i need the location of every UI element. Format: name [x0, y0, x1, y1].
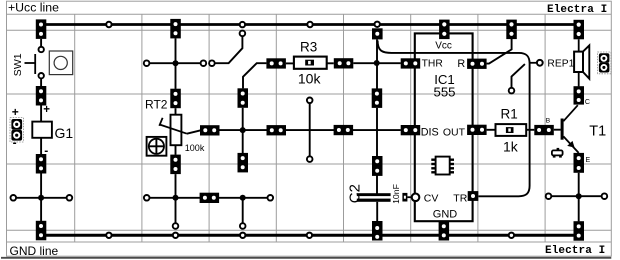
- svg-text:Vcc: Vcc: [435, 40, 452, 51]
- wire col377 to C2: [376, 108, 378, 195]
- battery clip pads (left, + -): [10, 118, 23, 142]
- pad block col242 upper: [238, 88, 249, 108]
- wire G1 top: [40, 106, 42, 122]
- svg-text:+: +: [43, 104, 50, 116]
- pad block R3 left: [266, 58, 286, 68]
- junction col242 row198: [240, 195, 246, 201]
- svg-text:C2: C2: [347, 184, 364, 203]
- svg-text:R3: R3: [300, 39, 317, 54]
- terminal circle row196 right: [602, 193, 608, 199]
- terminal circle col310 link top: [307, 98, 313, 104]
- terminal circle col511 mid: [509, 88, 515, 94]
- wire R3 right lead: [327, 62, 334, 64]
- pad block col175 on +Ucc rail: [170, 19, 181, 39]
- wire SW1 top: [40, 39, 42, 47]
- svg-text:Electra I: Electra I: [545, 245, 605, 257]
- terminal circle col310 link bottom: [307, 156, 313, 162]
- svg-text:THR: THR: [422, 59, 443, 70]
- terminal circle CV: [412, 194, 420, 202]
- svg-text:DIS: DIS: [421, 127, 439, 139]
- terminal circle row198 mid-left: [144, 195, 150, 201]
- pad block col41 on +Ucc rail: [36, 19, 47, 39]
- pad block OUT: [467, 125, 487, 135]
- pad col377 below rail: [372, 28, 383, 39]
- svg-text:R: R: [457, 58, 465, 70]
- junction col175 row198: [173, 195, 179, 201]
- wire R3 left pad to col242 block: [243, 63, 266, 88]
- wire GND rail: [36, 234, 584, 237]
- svg-text:+Ucc line: +Ucc line: [8, 0, 59, 14]
- thermistor RT2 body: [171, 115, 182, 146]
- wire twin circles to rail col242: [215, 37, 242, 64]
- junction col578 row196: [576, 193, 582, 199]
- wire speaker to C pad: [578, 72, 580, 86]
- terminal col310 on +Ucc rail: [307, 22, 312, 27]
- wire col41 to GND: [40, 174, 42, 222]
- svg-text:RT2: RT2: [145, 98, 168, 112]
- pad block DIS row 3: [334, 125, 354, 135]
- buzzer icon: [552, 148, 563, 158]
- pushbutton icon: [49, 51, 72, 75]
- svg-text:100k: 100k: [185, 143, 205, 153]
- resistor R1: [496, 124, 527, 136]
- pad block C (collector): [574, 86, 585, 104]
- pad block col377 on GND rail: [372, 221, 383, 241]
- pad block col41 above G1: [36, 86, 47, 106]
- pad block E (emitter): [574, 153, 585, 173]
- pad block col242 lower: [238, 153, 249, 173]
- battery G1: [32, 122, 52, 138]
- pad block RT2 bottom: [170, 155, 181, 175]
- svg-text:Electra I: Electra I: [547, 4, 607, 16]
- terminal col511 on GND rail: [509, 233, 514, 238]
- terminal circle REP1: [537, 60, 543, 66]
- pad block DIS row 2: [267, 125, 287, 135]
- svg-text:E: E: [586, 157, 591, 164]
- svg-text:SW1: SW1: [12, 53, 24, 76]
- pad 10nF tiny: [402, 193, 407, 202]
- terminal col108 on +Ucc rail: [106, 22, 111, 27]
- pad block R3 right: [334, 58, 354, 68]
- pad block col511 on rail: [506, 20, 517, 39]
- wire R3 left lead: [286, 62, 294, 64]
- wire +Ucc rail: [36, 23, 584, 26]
- wire col377 vertical (THR net): [376, 39, 378, 88]
- wire RT2 top lead: [175, 108, 177, 115]
- terminal circle row198 mid-right: [268, 195, 274, 201]
- wire col175 rail to RT2: [175, 38, 177, 89]
- capacitor C2: [357, 193, 391, 202]
- wire THR row: [353, 62, 401, 64]
- pad block Vcc on rail: [439, 20, 450, 39]
- speaker clip pads (right): [598, 52, 611, 74]
- speaker REP1 symbol: [574, 45, 589, 78]
- wire spring terminal to arc: [512, 64, 525, 87]
- wire col242 row198 to GND rail: [242, 198, 244, 223]
- wire RT2 bottom lead: [175, 145, 177, 155]
- trimmer screw symbol: [147, 137, 167, 156]
- wire OUT to R1: [487, 129, 496, 131]
- pad block THR: [401, 58, 421, 68]
- wire row63 left: [147, 62, 200, 64]
- terminal circle col242 on rail: [240, 22, 245, 27]
- terminal circle row63 left: [144, 60, 150, 66]
- pad TR: [468, 191, 479, 201]
- IC1 555 box: [415, 33, 473, 221]
- terminal col108 on GND rail: [106, 233, 111, 238]
- wire Ucc-pad arc to REP1/TR: [378, 41, 530, 197]
- wire DIS row: [200, 129, 401, 131]
- svg-text:OUT: OUT: [443, 127, 466, 139]
- pad block col578 on GND rail: [574, 221, 585, 241]
- pad block RT2 top: [170, 89, 181, 109]
- terminal circle row198 right of col41: [67, 195, 73, 201]
- RT2 wiper tick: [159, 118, 162, 126]
- svg-text:B: B: [546, 118, 551, 125]
- svg-text:T1: T1: [589, 124, 606, 140]
- wire RT2 wiper to DIS row: [187, 130, 200, 133]
- wire col175 row198 to GND rail: [175, 198, 177, 223]
- terminal circle col242 above GND rail: [240, 223, 246, 229]
- terminal circle row63 twin A: [201, 60, 207, 66]
- terminal circle col175 on GND rail: [173, 233, 178, 238]
- svg-text:TR: TR: [453, 193, 467, 205]
- wire C2 to GND rail: [376, 202, 378, 221]
- junction col242 DIS row: [240, 127, 246, 133]
- terminal col377 on +Ucc rail: [375, 22, 380, 27]
- wire G1 bottom: [40, 138, 42, 154]
- pad block R (reset): [467, 59, 487, 69]
- terminal circle col242 below rail: [240, 31, 246, 37]
- wire col242 block to DIS row and lower block: [242, 108, 244, 153]
- svg-text:REP1: REP1: [547, 58, 574, 69]
- svg-text:-: -: [13, 136, 17, 150]
- wire col310 link: [309, 104, 311, 156]
- junction col377 THR row: [374, 60, 380, 66]
- transistor T1: [561, 105, 579, 153]
- terminal col310 on GND rail: [307, 233, 312, 238]
- pad block col41 below G1: [36, 154, 47, 174]
- pad block B: [534, 125, 554, 135]
- svg-text:1k: 1k: [503, 139, 519, 155]
- terminal circle row63 twin B: [209, 60, 215, 66]
- junction col175 row63: [173, 60, 179, 66]
- svg-text:555: 555: [433, 84, 455, 99]
- wire rail to speaker: [578, 39, 580, 51]
- svg-text:10k: 10k: [298, 71, 322, 87]
- wire tiny pad to CV: [407, 196, 411, 198]
- wire row198 left: [14, 197, 69, 199]
- pad block col377 lower: [372, 156, 383, 176]
- svg-text:10nF: 10nF: [391, 184, 401, 204]
- svg-text:C: C: [585, 99, 590, 106]
- chip icon: [431, 157, 454, 175]
- pad block DIS: [401, 125, 421, 135]
- pad block col41 on GND rail: [36, 221, 47, 241]
- pad block col578 on +Ucc rail: [574, 20, 585, 40]
- wire R pad to rail col511: [487, 39, 512, 64]
- wire SW1 bottom: [40, 79, 42, 86]
- terminal circle col242 on GND rail: [240, 233, 245, 238]
- terminal circle col175 above GND rail: [173, 223, 179, 229]
- terminal circle row198 left: [11, 195, 17, 201]
- svg-text:+: +: [12, 105, 19, 119]
- pad block GND on rail: [439, 221, 450, 241]
- wire E pad to row196 and GND rail: [578, 173, 580, 222]
- switch SW1: [25, 47, 44, 79]
- terminal circle row196 left: [546, 193, 552, 199]
- svg-text:GND line: GND line: [10, 244, 59, 258]
- wire row196: [552, 195, 602, 197]
- wire stub to REP1 terminal: [530, 62, 537, 64]
- junction col41 row198: [38, 195, 44, 201]
- svg-text:GND: GND: [433, 209, 458, 221]
- RT2 wiper diagonal: [160, 125, 187, 134]
- wire RT2 to row198: [175, 174, 177, 198]
- wire R1 to B pad: [526, 129, 534, 131]
- wire row198 mid: [147, 197, 270, 199]
- wire B pad to base: [554, 129, 561, 131]
- resistor R3: [294, 57, 327, 69]
- pad block row198: [200, 193, 220, 203]
- svg-text:CV: CV: [424, 193, 439, 205]
- svg-text:R1: R1: [501, 107, 518, 122]
- svg-text:G1: G1: [55, 125, 74, 141]
- pad block col377 mid: [372, 88, 383, 108]
- pad block DIS row 1: [200, 125, 220, 135]
